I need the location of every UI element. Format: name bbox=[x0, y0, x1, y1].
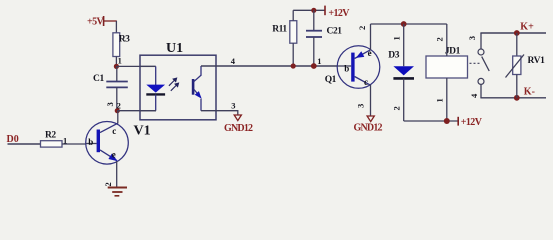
U1 LED anode lead bbox=[140, 65, 156, 67]
resistor R11 bbox=[272, 21, 297, 44]
wire R11 bottom to signal wire bbox=[292, 43, 294, 66]
wire Q1 emitter up to relay rail bbox=[370, 24, 372, 50]
wire R11 top to +12V rail bbox=[292, 10, 294, 20]
svg-text:e: e bbox=[112, 150, 116, 160]
svg-text:GND12: GND12 bbox=[354, 122, 383, 133]
svg-text:+5V: +5V bbox=[87, 17, 104, 28]
ground GND12 (Q1 collector) bbox=[354, 116, 383, 133]
svg-text:R3: R3 bbox=[119, 35, 130, 45]
relay contact bbox=[478, 33, 489, 98]
op-to-coupler U1 box bbox=[140, 41, 216, 120]
resistor R2 bbox=[41, 130, 63, 147]
svg-text:2: 2 bbox=[357, 26, 367, 30]
svg-text:K-: K- bbox=[524, 87, 535, 98]
wire K- rail bbox=[480, 97, 546, 99]
junction node RV1 top bbox=[514, 30, 520, 36]
svg-text:1: 1 bbox=[435, 98, 445, 102]
resistor R3 bbox=[113, 33, 130, 57]
capacitor C21 bbox=[306, 10, 342, 66]
junction node C1/U1.2/V1 collector bbox=[115, 108, 120, 113]
svg-text:3: 3 bbox=[105, 102, 115, 106]
svg-text:c: c bbox=[364, 77, 368, 87]
wire D0 to R2 bbox=[8, 143, 41, 145]
wire R3 to node bbox=[115, 57, 117, 67]
power +12V (top) bbox=[325, 6, 350, 20]
svg-text:+12V: +12V bbox=[328, 8, 350, 19]
wire Q1 collector down to GND12 bbox=[370, 85, 372, 116]
U1 phototransistor bbox=[192, 66, 202, 111]
svg-text:C21: C21 bbox=[327, 27, 343, 37]
svg-text:R2: R2 bbox=[45, 130, 56, 140]
ground (earth) at V1 emitter bbox=[108, 188, 127, 196]
power +12V (bottom) bbox=[458, 117, 482, 128]
wire node down to V1 collector bbox=[117, 111, 119, 124]
diode D3 bbox=[388, 24, 414, 121]
wire node to U1 pin 1 bbox=[116, 65, 155, 67]
svg-text:RV1: RV1 bbox=[528, 56, 546, 66]
wire U1 pin 3 to GND12 bbox=[201, 111, 238, 115]
svg-text:3: 3 bbox=[467, 36, 477, 40]
U1 LED bbox=[146, 66, 165, 110]
wire node to U1 pin 2 bbox=[117, 110, 156, 112]
wire V1 emitter to ground bbox=[116, 161, 118, 187]
U1 light arrows bbox=[169, 78, 179, 91]
junction node JD1 pin1 bbox=[444, 118, 450, 124]
svg-text:b: b bbox=[88, 137, 93, 147]
wire relay bottom rail bbox=[404, 120, 459, 122]
svg-text:1: 1 bbox=[391, 36, 401, 40]
svg-text:1: 1 bbox=[118, 56, 122, 66]
wire +5V to R3 bbox=[115, 21, 117, 33]
ground GND12 (U1 pin3) bbox=[224, 115, 253, 134]
svg-text:GND12: GND12 bbox=[224, 123, 253, 134]
junction node D3 top bbox=[401, 21, 407, 27]
svg-text:V1: V1 bbox=[134, 124, 151, 139]
wire top rail R11/C21 bbox=[293, 9, 325, 11]
svg-text:b: b bbox=[344, 63, 349, 73]
svg-text:2: 2 bbox=[103, 182, 113, 186]
power +5V bbox=[87, 16, 117, 28]
varistor RV1 bbox=[506, 33, 546, 98]
wire R2 to V1 base bbox=[62, 143, 86, 145]
transistor V1 (NPN) bbox=[86, 122, 129, 165]
svg-text:Q1: Q1 bbox=[325, 75, 337, 85]
svg-text:1: 1 bbox=[317, 56, 321, 66]
junction node R11 bottom bbox=[291, 63, 296, 68]
svg-text:c: c bbox=[112, 126, 116, 136]
junction node C21 bottom bbox=[311, 63, 317, 69]
wire U1 pin 4 to R11/C21/Q1 base bbox=[201, 65, 338, 67]
svg-text:2: 2 bbox=[435, 37, 445, 41]
wire relay top rail bbox=[371, 23, 447, 25]
wire JD1 pin2 to rail bbox=[446, 24, 448, 56]
svg-text:+12V: +12V bbox=[461, 117, 483, 128]
svg-text:R11: R11 bbox=[272, 25, 287, 35]
junction node C21 top bbox=[311, 8, 316, 13]
svg-text:2: 2 bbox=[391, 106, 401, 110]
wire K+ rail bbox=[480, 32, 546, 34]
relay coil JD1 bbox=[426, 47, 468, 79]
relay contact dashed link bbox=[470, 62, 480, 64]
svg-text:D3: D3 bbox=[388, 51, 399, 61]
junction node R3/C1/U1.1 bbox=[114, 64, 119, 69]
svg-text:3: 3 bbox=[355, 104, 365, 108]
junction node RV1 bottom bbox=[514, 95, 520, 101]
wire JD1 pin1 down to +12V rail bbox=[446, 78, 448, 121]
transistor Q1 (PNP) bbox=[337, 46, 380, 89]
svg-text:K+: K+ bbox=[520, 22, 534, 33]
capacitor C1 bbox=[93, 66, 128, 110]
svg-text:3: 3 bbox=[231, 101, 235, 111]
U1 pin2 wire inside box bbox=[140, 110, 156, 112]
svg-text:4: 4 bbox=[231, 56, 236, 66]
svg-text:C1: C1 bbox=[93, 74, 104, 84]
svg-text:U1: U1 bbox=[166, 41, 183, 56]
